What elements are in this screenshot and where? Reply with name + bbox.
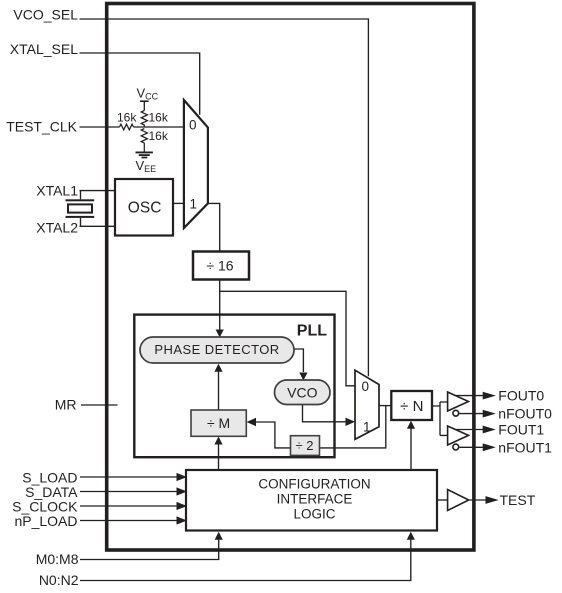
- svg-text:1: 1: [190, 197, 198, 212]
- svg-text:0: 0: [189, 118, 197, 133]
- svg-text:VCO: VCO: [287, 384, 317, 400]
- svg-text:VEE: VEE: [136, 158, 157, 174]
- svg-text:XTAL_SEL: XTAL_SEL: [10, 41, 78, 57]
- svg-text:÷ N: ÷ N: [400, 398, 423, 415]
- svg-text:÷ 16: ÷ 16: [206, 257, 233, 273]
- svg-text:INTERFACE: INTERFACE: [277, 492, 353, 507]
- svg-text:16k: 16k: [117, 111, 137, 125]
- svg-text:M0:M8: M0:M8: [36, 551, 79, 567]
- svg-text:0: 0: [362, 379, 370, 394]
- svg-text:÷ M: ÷ M: [207, 415, 230, 431]
- svg-text:16k: 16k: [149, 111, 169, 125]
- svg-text:FOUT0: FOUT0: [498, 388, 544, 404]
- svg-text:VCC: VCC: [137, 86, 159, 102]
- svg-text:nFOUT0: nFOUT0: [498, 406, 552, 422]
- svg-text:XTAL1: XTAL1: [36, 182, 78, 198]
- svg-text:VCO_SEL: VCO_SEL: [13, 7, 78, 23]
- svg-text:FOUT1: FOUT1: [498, 422, 544, 438]
- svg-text:PLL: PLL: [297, 322, 327, 339]
- svg-text:N0:N2: N0:N2: [39, 572, 79, 588]
- svg-text:÷ 2: ÷ 2: [296, 438, 314, 453]
- svg-text:PHASE DETECTOR: PHASE DETECTOR: [154, 342, 279, 357]
- svg-text:TEST_CLK: TEST_CLK: [6, 119, 77, 135]
- svg-text:TEST: TEST: [500, 492, 536, 508]
- svg-text:nP_LOAD: nP_LOAD: [14, 513, 77, 529]
- svg-text:1: 1: [363, 420, 371, 435]
- svg-text:MR: MR: [55, 397, 77, 413]
- svg-text:XTAL2: XTAL2: [36, 219, 78, 235]
- svg-text:OSC: OSC: [128, 200, 162, 217]
- svg-text:CONFIGURATION: CONFIGURATION: [258, 476, 370, 491]
- svg-text:16k: 16k: [149, 129, 169, 143]
- svg-text:LOGIC: LOGIC: [293, 507, 335, 522]
- svg-text:nFOUT1: nFOUT1: [498, 439, 552, 455]
